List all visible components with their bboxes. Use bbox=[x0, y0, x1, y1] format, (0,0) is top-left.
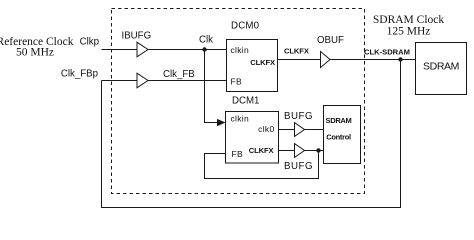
buffer BUFG bottom bbox=[295, 144, 305, 158]
wire Clkp input to IBUFG bbox=[102, 49, 138, 51]
svg-text:125 MHz: 125 MHz bbox=[387, 26, 431, 38]
buffer OBUF bbox=[321, 51, 331, 67]
junction node CLK-SDRAM bbox=[398, 57, 402, 61]
junction node DCM1 fb bbox=[316, 148, 320, 152]
svg-text:DCM1: DCM1 bbox=[232, 96, 259, 107]
svg-text:BUFG: BUFG bbox=[284, 161, 313, 172]
svg-text:IBUFG: IBUFG bbox=[122, 31, 152, 42]
wire OBUF output CLK-SDRAM to SDRAM bbox=[330, 59, 416, 61]
DCM0 box bbox=[227, 40, 278, 92]
svg-text:FB: FB bbox=[232, 149, 243, 159]
wire board feedback loop (left vertical, bottom, right vertical) bbox=[102, 60, 401, 208]
DCM1 box bbox=[226, 112, 279, 164]
wire BUFG bottom output to SDRAM Control bbox=[305, 150, 324, 152]
svg-text:Clk: Clk bbox=[199, 35, 213, 46]
svg-text:CLKFX: CLKFX bbox=[284, 47, 309, 56]
svg-text:CLK-SDRAM: CLK-SDRAM bbox=[364, 48, 410, 57]
wire IBUFG output to DCM0 clkin (net Clk) bbox=[148, 49, 227, 51]
svg-text:Clk_FB: Clk_FB bbox=[163, 69, 195, 80]
SDRAM box bbox=[416, 43, 467, 95]
SDRAM Control box bbox=[324, 106, 361, 164]
svg-text:SDRAM: SDRAM bbox=[326, 116, 352, 125]
svg-text:BUFG: BUFG bbox=[284, 111, 313, 122]
svg-text:CLKFX: CLKFX bbox=[249, 146, 274, 155]
wire DCM1 feedback loop to FB pin bbox=[205, 151, 319, 179]
svg-text:DCM0: DCM0 bbox=[231, 21, 260, 32]
svg-text:clkin: clkin bbox=[231, 114, 250, 124]
svg-text:Clkp: Clkp bbox=[80, 37, 99, 48]
buffer BUFG top bbox=[295, 123, 305, 137]
wire BUFG top output to SDRAM Control bbox=[305, 129, 324, 131]
svg-text:50 MHz: 50 MHz bbox=[16, 47, 54, 59]
svg-text:SDRAM: SDRAM bbox=[423, 61, 459, 73]
svg-text:clk0: clk0 bbox=[258, 124, 274, 134]
buffer IBUFG feedback bbox=[137, 73, 148, 88]
wire node Clk down to DCM1 clkin bbox=[205, 50, 218, 123]
wire DCM0 CLKFX output to OBUF bbox=[278, 59, 321, 61]
buffer IBUFG bbox=[137, 42, 148, 57]
arrowhead into DCM1 clkin bbox=[217, 119, 226, 126]
wire DCM1 CLKFX output to BUFG bbox=[279, 150, 295, 152]
svg-text:Clk_FBp: Clk_FBp bbox=[61, 69, 98, 80]
FPGA boundary dashed box bbox=[112, 9, 365, 194]
svg-text:CLKFX: CLKFX bbox=[250, 58, 275, 67]
svg-text:clkin: clkin bbox=[231, 45, 250, 55]
wire Clk_FB net to DCM0 FB pin bbox=[148, 80, 227, 82]
svg-text:Control: Control bbox=[326, 133, 351, 142]
junction node Clk bbox=[202, 47, 206, 51]
wire Clk_FBp input to feedback IBUFG bbox=[102, 80, 138, 82]
wire DCM1 clk0 output to BUFG bbox=[279, 129, 295, 131]
svg-text:OBUF: OBUF bbox=[317, 35, 344, 46]
svg-text:SDRAM Clock: SDRAM Clock bbox=[373, 14, 444, 26]
svg-text:FB: FB bbox=[231, 77, 242, 87]
